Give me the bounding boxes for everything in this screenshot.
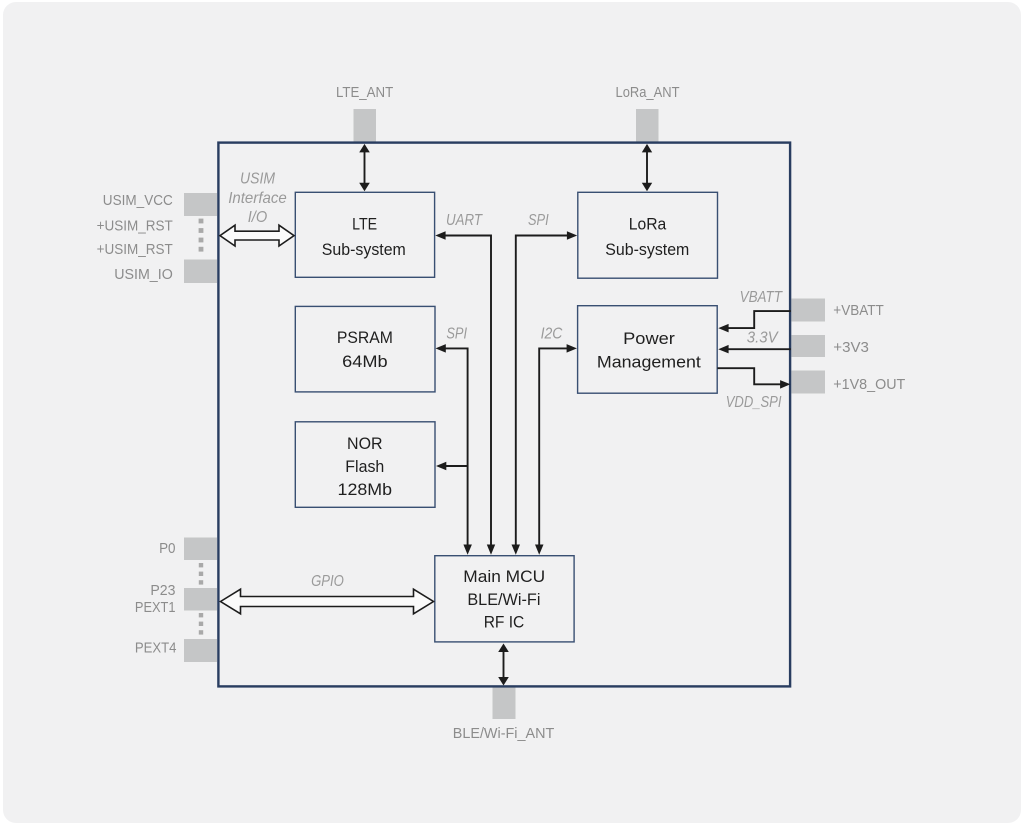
svg-text:LTE: LTE	[352, 215, 377, 234]
svg-text:UART: UART	[446, 212, 483, 229]
svg-text:BLE/Wi-Fi: BLE/Wi-Fi	[467, 590, 540, 609]
svg-text:P0: P0	[159, 540, 175, 557]
svg-text:USIM_VCC: USIM_VCC	[103, 192, 173, 209]
svg-text:GPIO: GPIO	[311, 573, 344, 590]
svg-text:Sub-system: Sub-system	[322, 240, 406, 259]
svg-text:BLE/Wi-Fi_ANT: BLE/Wi-Fi_ANT	[453, 725, 555, 742]
svg-text:+USIM_RST: +USIM_RST	[97, 217, 173, 234]
svg-text:SPI: SPI	[446, 326, 467, 343]
svg-text:NOR: NOR	[347, 434, 383, 453]
svg-text:PEXT1: PEXT1	[135, 599, 176, 616]
svg-text:LTE_ANT: LTE_ANT	[336, 84, 393, 101]
svg-text:+1V8_OUT: +1V8_OUT	[833, 376, 905, 393]
svg-text:+VBATT: +VBATT	[833, 302, 884, 319]
svg-text:64Mb: 64Mb	[342, 352, 388, 371]
svg-text:USIM: USIM	[240, 170, 276, 187]
svg-text:LoRa_ANT: LoRa_ANT	[616, 84, 680, 101]
svg-text:Sub-system: Sub-system	[605, 240, 689, 259]
svg-text:VBATT: VBATT	[740, 289, 783, 306]
svg-text:Interface: Interface	[228, 190, 287, 207]
svg-text:LoRa: LoRa	[629, 215, 667, 234]
svg-text:Flash: Flash	[345, 457, 384, 476]
svg-text:Main MCU: Main MCU	[463, 567, 545, 586]
svg-text:I2C: I2C	[541, 326, 563, 343]
svg-text:Management: Management	[597, 353, 701, 372]
svg-text:I/O: I/O	[248, 209, 268, 226]
svg-text:VDD_SPI: VDD_SPI	[726, 394, 782, 411]
svg-text:+USIM_RST: +USIM_RST	[97, 241, 173, 258]
svg-text:PSRAM: PSRAM	[337, 328, 393, 347]
svg-text:PEXT4: PEXT4	[135, 640, 177, 657]
svg-text:+3V3: +3V3	[833, 339, 869, 356]
svg-text:USIM_IO: USIM_IO	[114, 266, 173, 283]
svg-text:3.3V: 3.3V	[747, 329, 779, 346]
svg-text:P23: P23	[150, 582, 175, 599]
svg-text:Power: Power	[623, 329, 675, 348]
svg-text:128Mb: 128Mb	[338, 480, 393, 499]
svg-text:SPI: SPI	[528, 212, 549, 229]
svg-text:RF IC: RF IC	[484, 613, 525, 632]
